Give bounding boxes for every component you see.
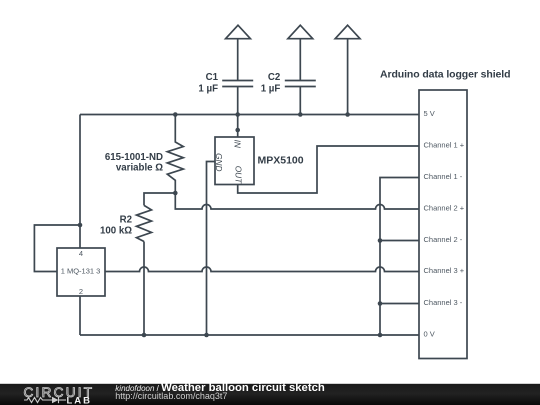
- svg-text:Arduino data logger shield: Arduino data logger shield: [380, 69, 510, 81]
- wire divider junction to R2: [144, 193, 175, 205]
- wire 0V rail: [80, 334, 419, 336]
- wire VCC B to C2: [299, 39, 301, 81]
- sensor U2 MQ-131: [57, 248, 105, 296]
- svg-text:IN: IN: [233, 140, 243, 148]
- node tie / 0V junction: [378, 333, 383, 338]
- svg-text:4: 4: [79, 249, 83, 258]
- footer bar: [0, 384, 540, 405]
- node MQ pin 4 junction: [78, 223, 83, 228]
- node MPX GND / 0V junction: [204, 333, 209, 338]
- svg-text:1 MQ-131 3: 1 MQ-131 3: [61, 267, 101, 276]
- wire 5V rail down to MQ-131 pin 4: [79, 115, 81, 249]
- svg-text:OUT: OUT: [234, 166, 244, 184]
- svg-text:C2: C2: [268, 72, 280, 83]
- wire C1 to 5V rail: [237, 87, 239, 115]
- node rail/VCC C junction: [345, 112, 350, 117]
- node MPX IN pin: [235, 128, 240, 133]
- node divider junction: [173, 191, 178, 196]
- svg-text:Channel 1 -: Channel 1 -: [424, 172, 463, 181]
- wire VCC C to 5V rail: [347, 39, 349, 115]
- svg-text:variable Ω: variable Ω: [116, 163, 163, 174]
- wire Channel 3-: [380, 303, 419, 305]
- svg-text:GND: GND: [214, 153, 224, 171]
- wire R2 to 0V rail: [143, 242, 145, 336]
- wire divider junction to Channel 2+: [175, 193, 419, 209]
- wire MQ pin 2 to 0V rail: [79, 296, 81, 335]
- svg-text:http://circuitlab.com/chaq3t7: http://circuitlab.com/chaq3t7: [115, 391, 227, 401]
- svg-text:1 µF: 1 µF: [261, 84, 281, 95]
- label 615-1001-ND variable ohm: [105, 152, 163, 174]
- capacitor C2: [285, 81, 316, 87]
- node rail/C2 junction: [298, 112, 303, 117]
- shield box Arduino data logger: [419, 90, 467, 359]
- wire VCC A to C1: [237, 39, 239, 81]
- svg-text:Channel 2 -: Channel 2 -: [424, 235, 463, 244]
- wire C2 to 5V rail: [299, 87, 301, 115]
- wire Channel 2-: [380, 240, 419, 242]
- wire MQ pin 1 loop: [34, 225, 80, 272]
- svg-text:C1: C1: [206, 72, 219, 83]
- svg-text:R2: R2: [120, 214, 132, 225]
- wire 5V rail: [80, 114, 419, 116]
- node tie / Channel 2- junction: [378, 238, 383, 243]
- svg-text:Channel 3 -: Channel 3 -: [424, 298, 463, 307]
- power flag VCC A: [226, 25, 251, 39]
- CircuitLab logo resistor and diode glyph: [24, 397, 66, 403]
- svg-text:100 kΩ: 100 kΩ: [100, 226, 132, 237]
- power flag VCC B: [288, 25, 313, 39]
- resistor R615 615-1001-ND: [167, 115, 183, 194]
- node R2 / 0V junction: [142, 333, 147, 338]
- svg-text:Channel 1 +: Channel 1 +: [424, 141, 465, 150]
- power flag VCC C: [335, 25, 360, 39]
- svg-text:MPX5100: MPX5100: [258, 155, 304, 167]
- node rail/R615 junction: [173, 112, 178, 117]
- label C2 value: [261, 72, 281, 95]
- wire MQ pin 3 to Channel 3+: [105, 267, 419, 272]
- svg-text:1 µF: 1 µF: [198, 84, 218, 95]
- label C1 value: [198, 72, 218, 95]
- svg-text:0 V: 0 V: [424, 330, 435, 339]
- svg-text:LAB: LAB: [67, 395, 93, 405]
- label R2 100 kohm: [100, 214, 132, 236]
- svg-text:615-1001-ND: 615-1001-ND: [105, 152, 163, 163]
- svg-text:5 V: 5 V: [424, 109, 435, 118]
- svg-text:Channel 3 +: Channel 3 +: [424, 266, 465, 275]
- node rail/C1 junction: [235, 112, 240, 117]
- wire 5V rail to MPX IN: [237, 115, 239, 138]
- resistor R2: [137, 205, 152, 241]
- capacitor C1: [222, 81, 253, 87]
- wire MPX OUT to Channel 1+: [238, 146, 419, 193]
- node tie / Channel 3- junction: [378, 301, 383, 306]
- svg-text:Channel 2 +: Channel 2 +: [424, 204, 465, 213]
- IC U1 MPX5100: [215, 137, 254, 185]
- wire MPX GND to 0V rail: [207, 162, 216, 336]
- svg-text:2: 2: [79, 287, 83, 296]
- wire Channel 1- ground tie: [380, 178, 419, 336]
